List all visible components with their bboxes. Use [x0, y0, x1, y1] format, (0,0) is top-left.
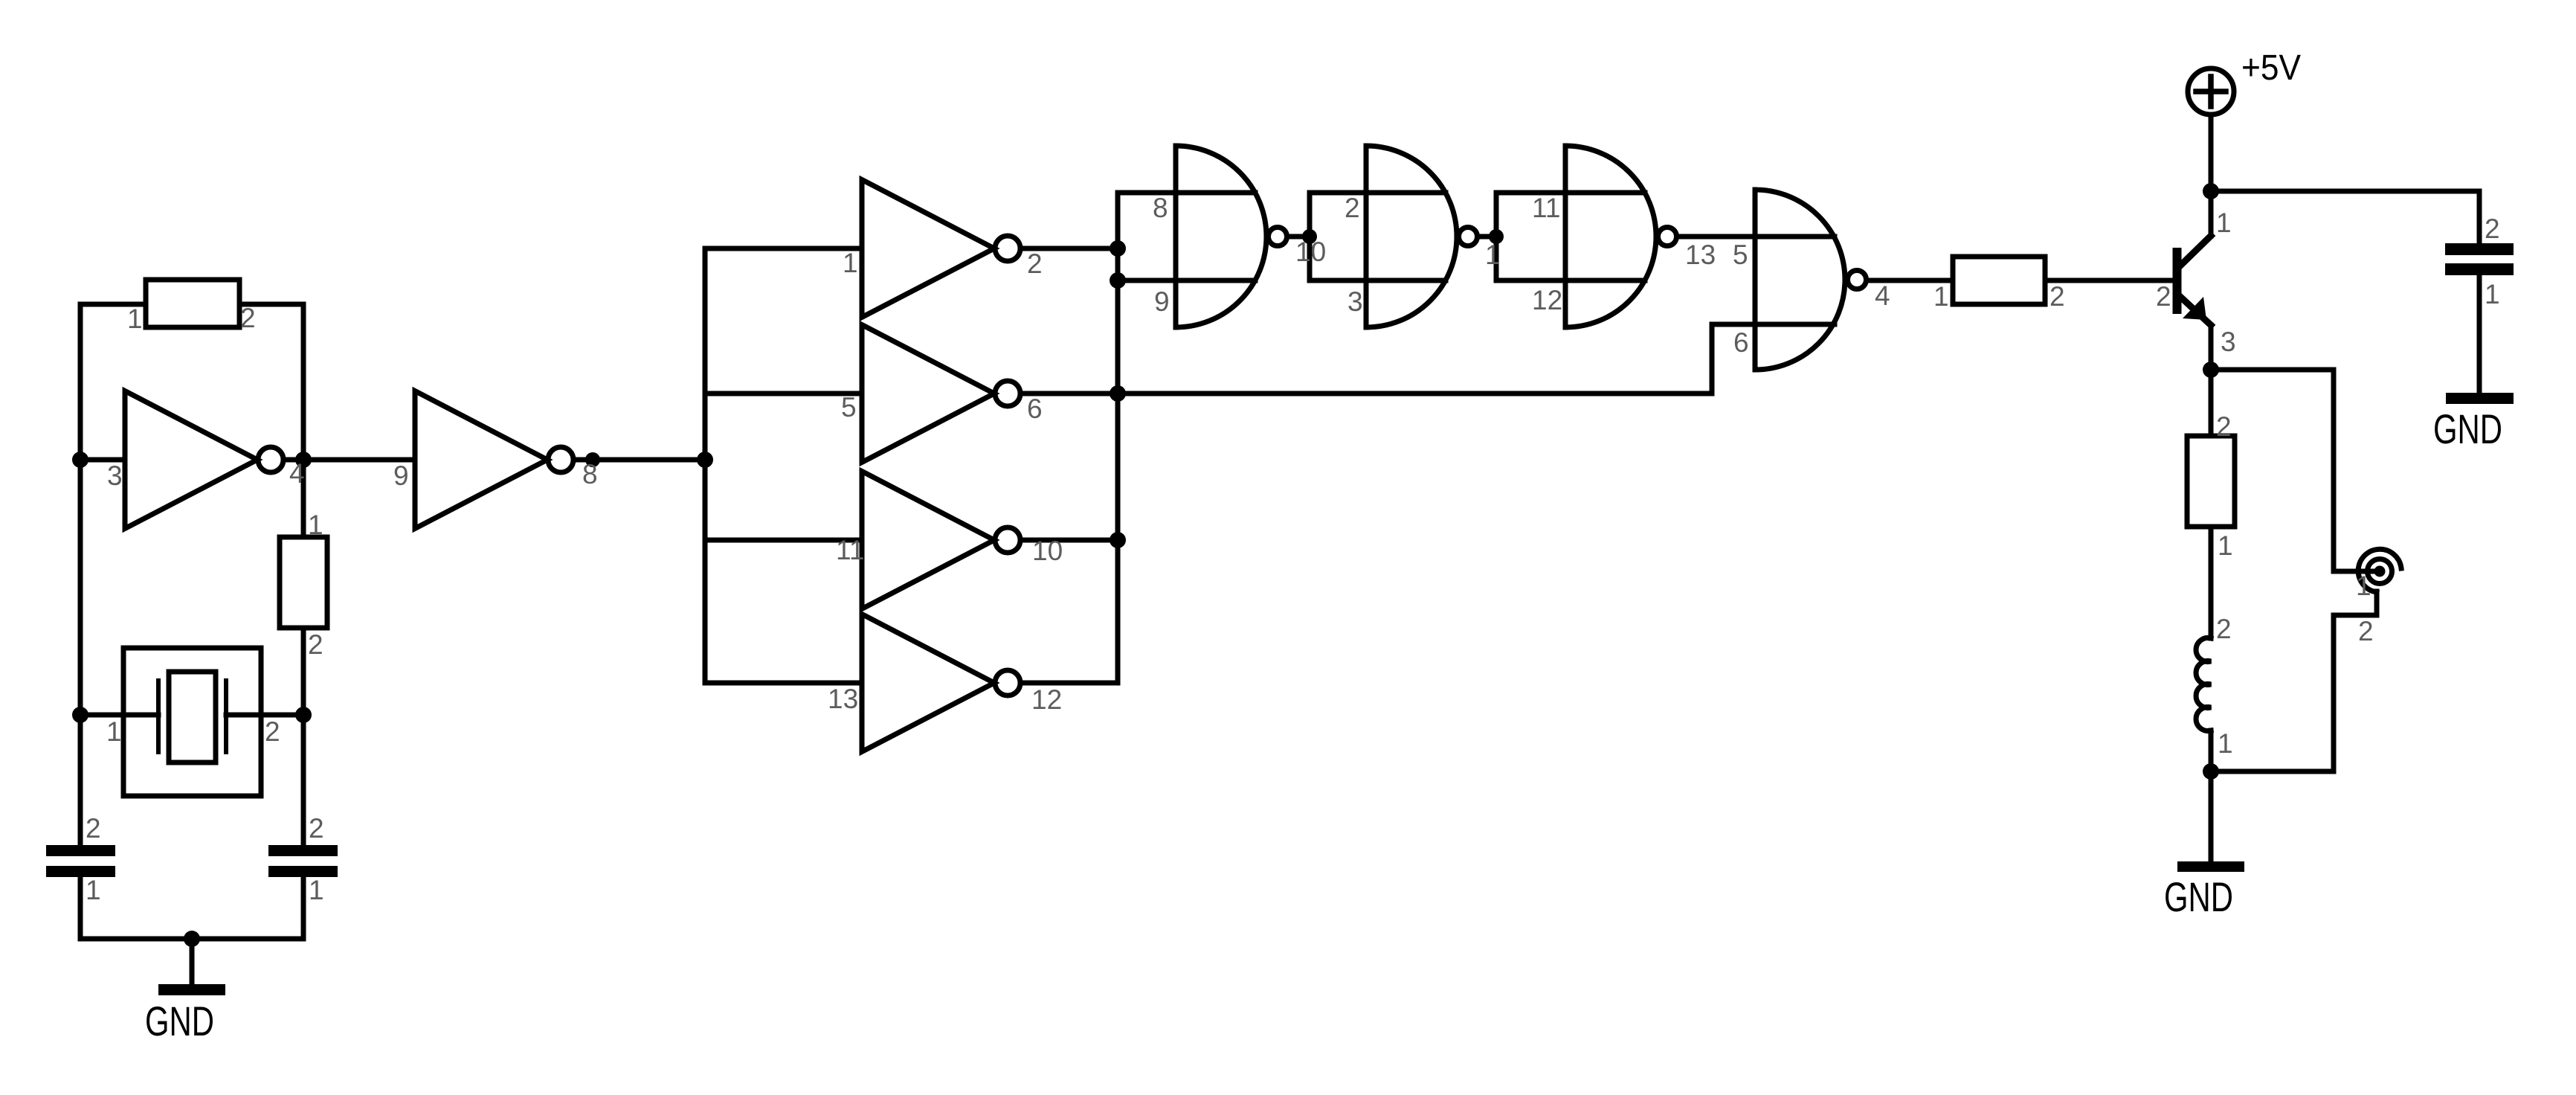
wire crystal pin1	[80, 713, 158, 718]
node junction bus row A	[1110, 240, 1126, 257]
svg-text:GND: GND	[2164, 873, 2233, 920]
svg-text:8: 8	[582, 459, 598, 489]
capacitor C1	[46, 845, 115, 877]
node junction bottom	[2203, 763, 2219, 780]
wire U1A output to U1B input	[284, 457, 415, 463]
svg-text:2: 2	[1345, 193, 1360, 223]
inverter U1B (pins 9-8)	[415, 391, 547, 529]
wire inverter D output	[1021, 681, 1118, 686]
svg-text:1: 1	[2218, 728, 2233, 759]
wire riser to NAND4 pin6	[1712, 324, 1835, 394]
node junction at U1A input	[72, 452, 88, 468]
svg-text:1: 1	[1933, 281, 1949, 312]
svg-text:3: 3	[1347, 286, 1363, 317]
wire bottom node to J1 pin2	[2211, 769, 2334, 774]
wire branch to inverter D	[705, 681, 862, 686]
wire NAND1-NAND2 link	[1310, 193, 1446, 280]
wire L1 to bottom node	[2209, 730, 2214, 771]
svg-text:1: 1	[2356, 571, 2371, 601]
svg-text:GND: GND	[145, 998, 214, 1044]
inverter U1C (pins 1-2)	[862, 180, 994, 318]
node junction collector	[2203, 183, 2219, 199]
node junction at pin4	[295, 452, 312, 468]
node junction fanout bus	[697, 452, 713, 468]
svg-text:1: 1	[309, 875, 324, 905]
svg-text:3: 3	[107, 460, 123, 491]
inverter U1D (pins 5-6)	[862, 325, 994, 463]
node junction NAND2 out	[1489, 229, 1504, 244]
wire C3 to ground	[2477, 275, 2482, 393]
svg-text:2: 2	[308, 629, 323, 660]
wire ground stub left	[190, 939, 195, 984]
wire R4 to L1	[2209, 527, 2214, 638]
svg-text:2: 2	[1027, 248, 1043, 279]
node small junction pin8	[585, 452, 600, 467]
svg-text:1: 1	[2485, 279, 2500, 309]
wire NAND3 output to NAND4 pin5	[1679, 234, 1835, 240]
svg-text:2: 2	[86, 813, 101, 844]
svg-text:11: 11	[836, 535, 864, 565]
wire U1B output to fanout bus	[574, 457, 705, 463]
nand gate U2A (pins 8,9-10)	[1176, 146, 1266, 327]
wire branch to inverter B	[705, 391, 862, 396]
inverter U1A (pins 3-4)	[125, 391, 257, 529]
transistor Q1 NPN	[2173, 248, 2182, 314]
svg-text:4: 4	[289, 458, 305, 489]
svg-text:2: 2	[265, 716, 280, 747]
wire NAND2-NAND3 link	[1496, 193, 1645, 280]
svg-text:9: 9	[1154, 286, 1170, 317]
wire right vertical of oscillator	[301, 304, 306, 939]
svg-text:4: 4	[1875, 280, 1890, 311]
resistor R2	[280, 537, 327, 628]
capacitor C3	[2445, 243, 2514, 275]
resistor R3	[1953, 257, 2045, 304]
node junction bus pin9	[1110, 272, 1126, 289]
wire fanout left bus	[703, 248, 708, 683]
wire inverter A output	[1021, 246, 1118, 251]
svg-text:8: 8	[1153, 193, 1168, 223]
wire top feedback (to R1)	[80, 302, 303, 307]
wire inverter B output long line to NAND4 pin6	[1021, 391, 1712, 396]
node junction bus row B	[1110, 385, 1126, 402]
inverter U1F (pins 13-12)	[862, 614, 994, 752]
svg-text:1: 1	[127, 304, 143, 334]
wire emitter node to R4	[2209, 370, 2214, 436]
wire connector J1 pin2 return	[2334, 591, 2377, 771]
svg-text:2: 2	[2358, 616, 2374, 646]
svg-text:11: 11	[1532, 193, 1560, 223]
node junction bottom rail	[184, 931, 200, 947]
inductor L1	[2196, 638, 2211, 731]
svg-text:GND: GND	[2433, 405, 2502, 452]
wire NAND1 input pin8	[1118, 190, 1255, 196]
crystal X1 element	[169, 672, 216, 762]
ground symbol top right	[2446, 393, 2514, 404]
wire collector to +5V node	[2209, 115, 2214, 236]
nand gate U2D (pins 5,6-4)	[1755, 190, 1845, 370]
wire NAND2 output	[1480, 234, 1496, 240]
svg-text:2: 2	[2216, 411, 2232, 442]
nand gate U2B (pins 2,3-1)	[1366, 146, 1457, 327]
wire crystal pin2	[226, 713, 303, 718]
node junction crystal pin2	[295, 707, 312, 723]
svg-text:1: 1	[2218, 530, 2233, 561]
svg-text:9: 9	[393, 460, 409, 491]
svg-text:10: 10	[1295, 237, 1326, 267]
svg-text:2: 2	[2485, 213, 2500, 244]
svg-text:+5V: +5V	[2241, 48, 2301, 88]
node junction bus row C	[1110, 532, 1126, 548]
svg-text:12: 12	[1532, 285, 1562, 315]
ground symbol left	[158, 984, 225, 995]
svg-text:5: 5	[1733, 240, 1748, 270]
svg-text:6: 6	[1027, 394, 1043, 424]
wire branch to inverter C	[705, 538, 862, 543]
ground symbol bottom right	[2177, 861, 2244, 872]
svg-text:10: 10	[1032, 536, 1063, 566]
svg-text:6: 6	[1733, 327, 1749, 358]
wire NAND1 input pin9	[1118, 278, 1255, 283]
wire ground stub bottom right	[2209, 771, 2214, 861]
svg-text:2: 2	[2216, 614, 2232, 644]
wire branch to inverter A	[705, 246, 862, 251]
crystal X1 case	[123, 648, 261, 796]
wire emitter node to connector J1 pin1	[2211, 370, 2380, 571]
svg-text:12: 12	[1031, 684, 1062, 715]
resistor R1	[146, 280, 239, 327]
svg-text:1: 1	[843, 248, 858, 278]
wire +5V node to C3	[2211, 191, 2479, 243]
power +5V symbol	[2188, 68, 2234, 115]
node junction emitter	[2203, 362, 2219, 378]
wire NAND1 output	[1289, 234, 1310, 240]
svg-text:5: 5	[841, 392, 857, 423]
wire bottom rail	[80, 937, 303, 942]
wire inverter U1A input	[80, 457, 125, 463]
svg-text:13: 13	[1685, 240, 1716, 270]
svg-text:2: 2	[309, 813, 324, 844]
wire left vertical bus of oscillator	[78, 304, 83, 939]
svg-text:3: 3	[2221, 327, 2236, 357]
svg-text:2: 2	[240, 303, 256, 333]
connector J1 coax	[2374, 566, 2386, 577]
nand gate U2C (pins 11,12-13)	[1565, 146, 1656, 327]
svg-text:13: 13	[828, 684, 858, 714]
svg-text:1: 1	[86, 875, 101, 905]
svg-text:2: 2	[2156, 281, 2171, 312]
node junction crystal pin1	[72, 707, 88, 723]
inverter U1E (pins 11-10)	[862, 472, 994, 609]
svg-text:1: 1	[308, 510, 323, 540]
wire emitter	[2209, 325, 2214, 370]
svg-text:1: 1	[2216, 208, 2232, 238]
svg-text:1: 1	[1485, 240, 1501, 270]
wire inverter C output	[1021, 538, 1118, 543]
capacitor C2	[268, 845, 338, 877]
wire R3 to Q1 base	[2045, 278, 2173, 283]
svg-text:2: 2	[2049, 281, 2065, 312]
svg-text:1: 1	[106, 716, 122, 747]
wire NAND4 output	[1869, 278, 1953, 283]
wire paralleling right bus	[1115, 193, 1121, 683]
resistor R4	[2187, 436, 2235, 527]
node junction NAND1 out	[1302, 229, 1317, 244]
